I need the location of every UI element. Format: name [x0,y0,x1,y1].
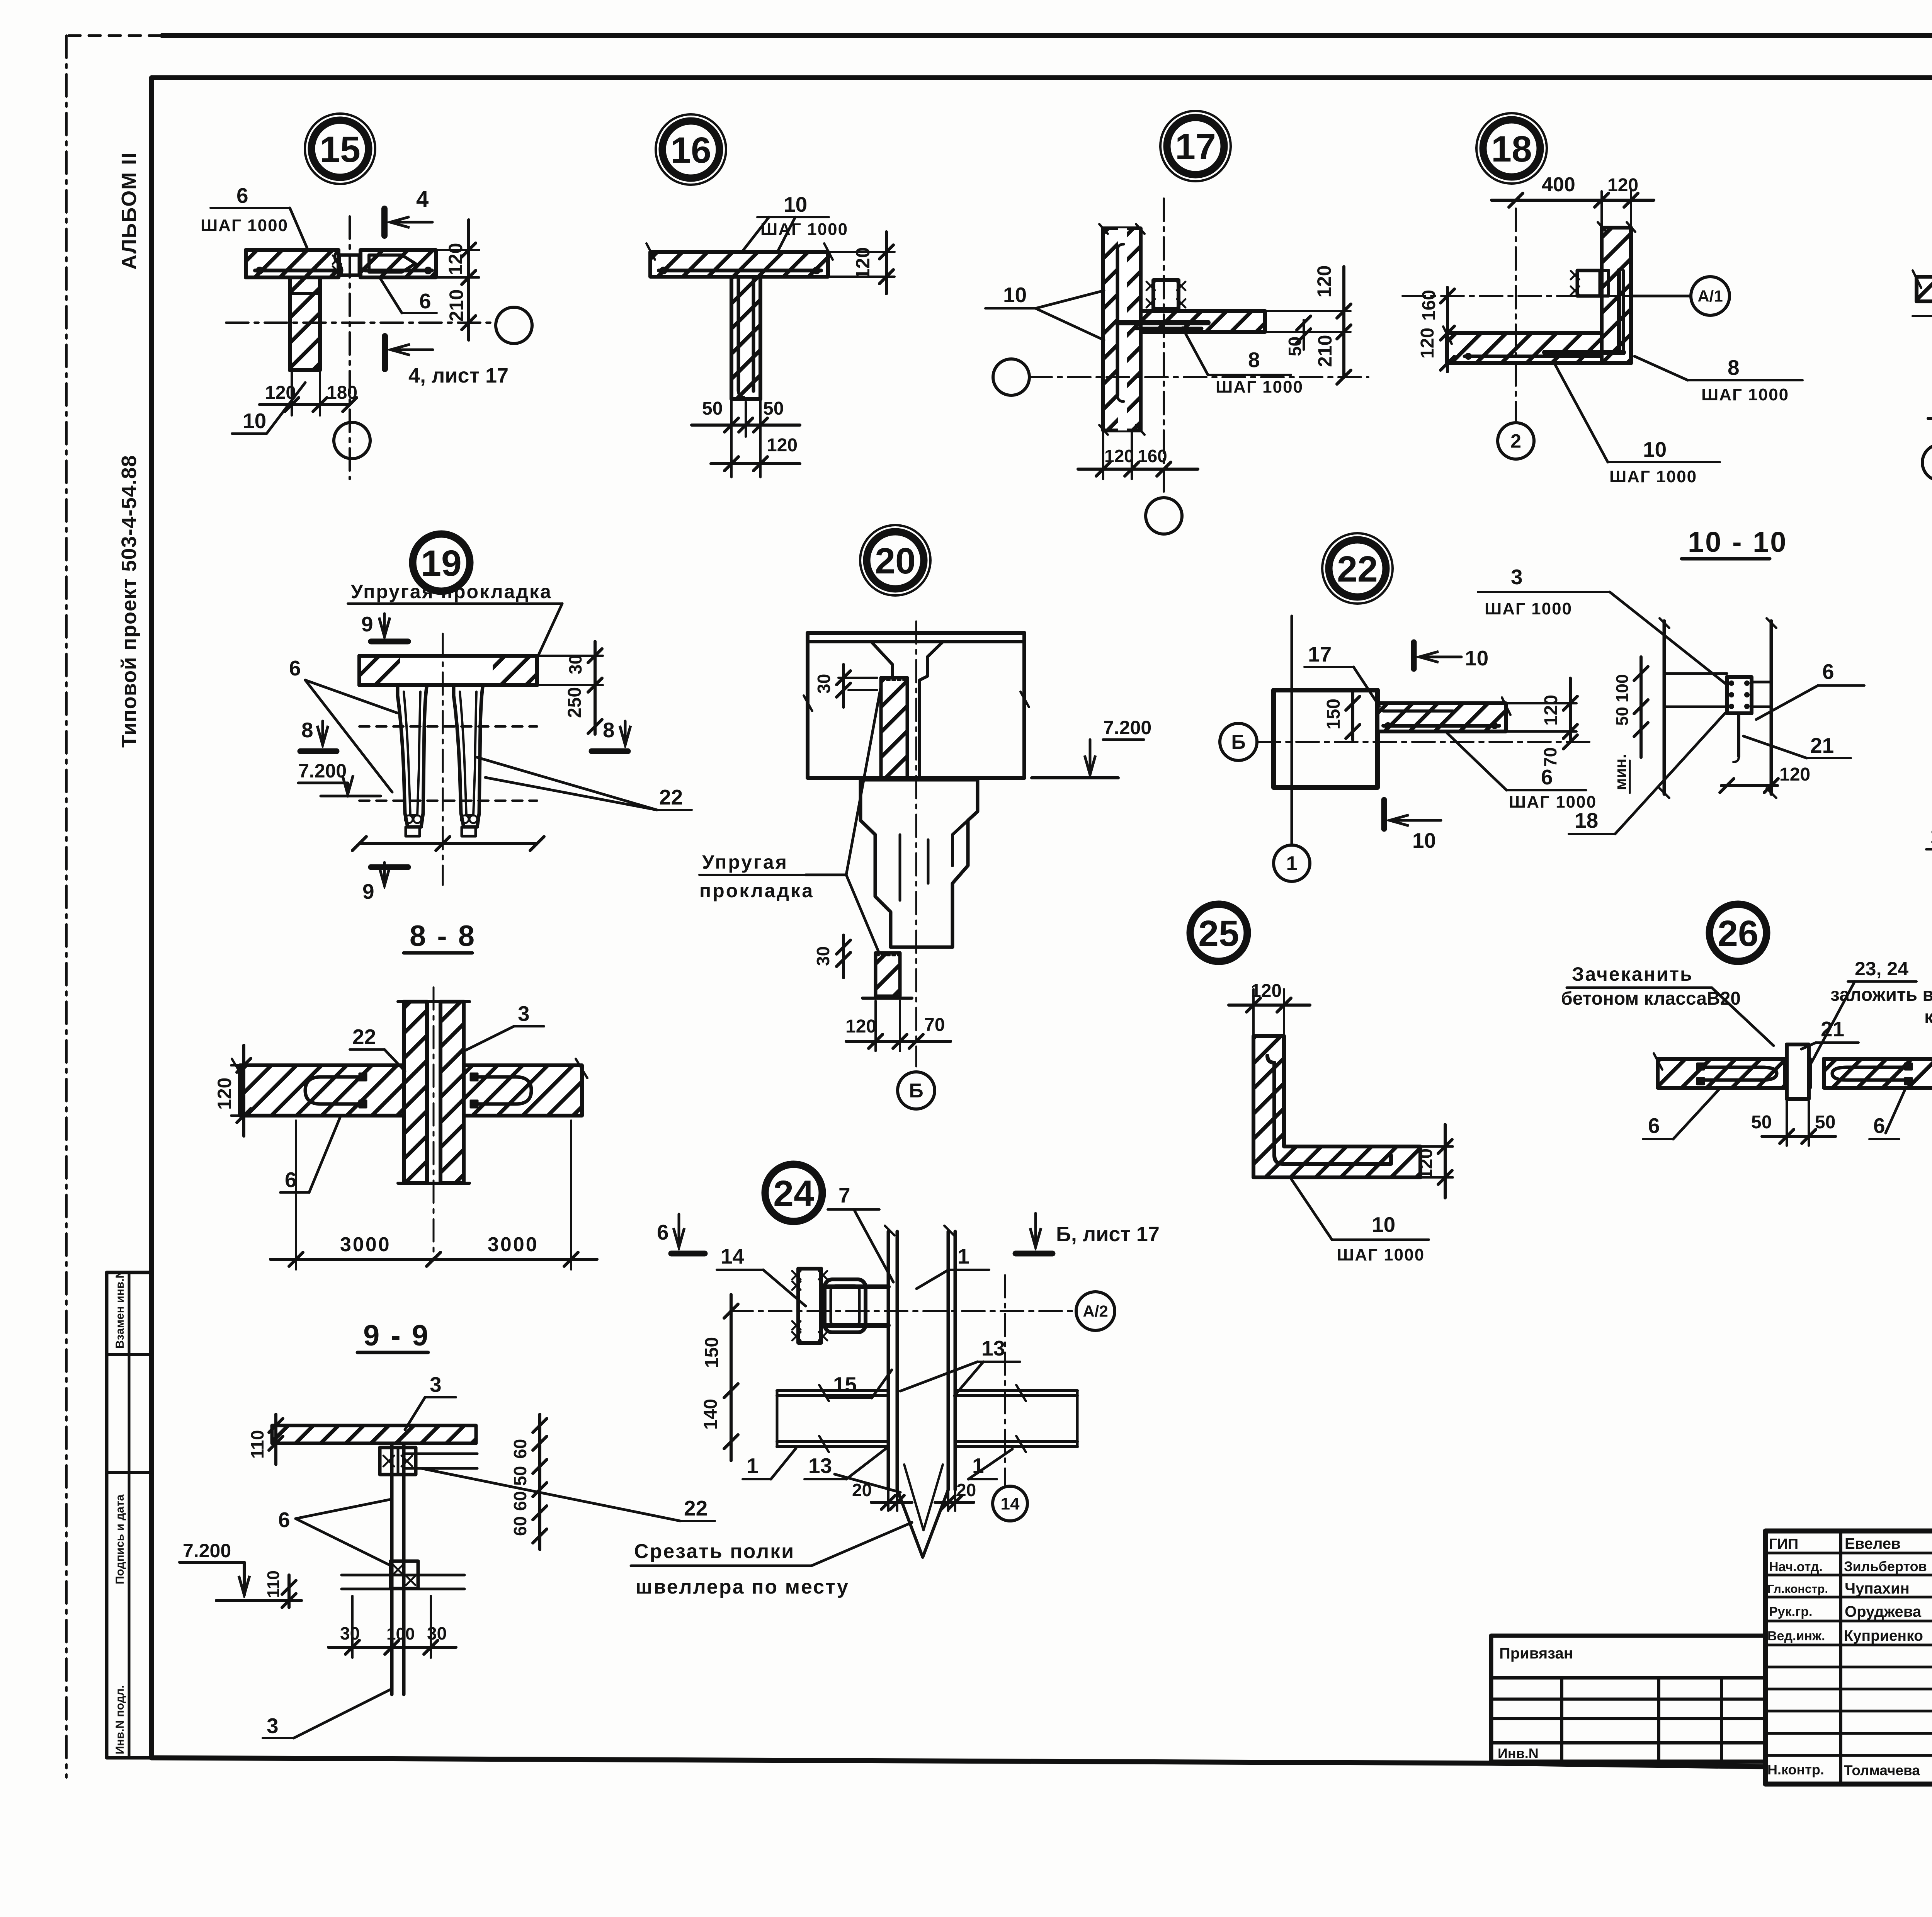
svg-text:3000: 3000 [488,1233,539,1256]
svg-text:8: 8 [301,718,313,742]
svg-text:Упругая прокладка: Упругая прокладка [351,581,552,602]
detail 18 wall axis [1515,209,1517,421]
svg-text:25: 25 [1198,913,1239,954]
detail 21 axis circle bottom [1922,444,1932,481]
svg-text:19: 19 [421,543,462,584]
svg-text:120: 120 [852,247,874,279]
section 8-8 wall axis [433,987,435,1260]
svg-text:160: 160 [1138,446,1167,466]
svg-text:ШАГ 1000: ШАГ 1000 [1216,378,1303,396]
svg-text:150: 150 [702,1337,722,1368]
svg-text:Евелев: Евелев [1845,1535,1901,1552]
dimension 50 50 d26 [1751,1101,1835,1146]
svg-text:60: 60 [510,1516,530,1536]
node 22 [1322,533,1393,604]
label 3 step 1000 f1010 [1478,565,1727,685]
svg-text:120: 120 [1541,695,1561,726]
svg-text:6: 6 [289,656,301,680]
detail 20 wall upper [881,678,907,778]
svg-text:180: 180 [327,383,357,403]
svg-text:6: 6 [236,184,248,208]
section mark 9 top [361,612,408,641]
svg-text:ШАГ 1000: ШАГ 1000 [1609,467,1697,486]
svg-text:швеллера по месту: швеллера по месту [636,1576,849,1598]
svg-text:1: 1 [957,1244,969,1268]
svg-text:А/2: А/2 [1083,1302,1108,1320]
section 10-10 wall edges [1660,618,1776,798]
svg-text:7.200: 7.200 [1103,717,1151,738]
detail 18 wall [1598,222,1635,363]
svg-text:60: 60 [510,1491,530,1511]
svg-text:120: 120 [1104,446,1134,466]
svg-text:30: 30 [565,655,585,674]
dimension 120 180 bottom [260,370,357,415]
section 9-9 upper rails [404,1454,477,1468]
svg-text:8: 8 [603,718,615,742]
svg-text:20: 20 [875,541,916,582]
node 25 [1190,904,1247,961]
svg-text:Толмачева: Толмачева [1844,1762,1920,1778]
svg-text:120: 120 [1416,1148,1436,1179]
label 6 f88 [280,1118,340,1192]
svg-text:заложить во время: заложить во время [1830,985,1932,1005]
label 3 f99 top [405,1373,456,1430]
detail 18 centerline [1403,295,1631,297]
detail 19 ceiling slab [359,656,537,685]
svg-text:120: 120 [1607,175,1638,196]
node 20 [860,525,930,595]
caulk note d26 [1561,963,1774,1046]
svg-text:10: 10 [1412,828,1436,852]
dimension 120 50 210 [1265,265,1351,377]
svg-text:10 - 10: 10 - 10 [1688,526,1787,558]
svg-text:ШАГ 1000: ШАГ 1000 [760,220,848,239]
detail 21 centerline [1913,315,1932,317]
svg-text:3: 3 [267,1714,279,1738]
svg-text:Б: Б [1231,731,1245,754]
detail 16 slab [646,243,833,277]
detail 26 slab left [1654,1053,1785,1088]
svg-text:мин.: мин. [1611,754,1629,790]
dimension 120 stem [711,435,800,471]
svg-text:Н.контр.: Н.контр. [1767,1762,1824,1778]
dimension 20 left d24 [852,1480,912,1511]
section 8-8 slab right [464,1059,587,1116]
left margin table vertical labels [114,1270,126,1754]
left margin vertical text 503-4-54.88 [117,455,141,748]
section 9-9 lower anchor [391,1561,418,1589]
detail 15 slab right [361,250,436,277]
dimension 400 120 bottom d21 [1928,376,1932,429]
svg-text:120: 120 [214,1078,235,1110]
section mark 10 bottom [1384,800,1441,852]
dimension 120 f1010 [1720,764,1810,793]
svg-text:9 - 9: 9 - 9 [363,1319,430,1352]
svg-text:250: 250 [565,687,585,718]
dimension 120 right [828,232,895,294]
detail 26 loop right [1832,1063,1912,1084]
svg-text:Привязан: Привязан [1499,1645,1573,1662]
detail 19 axis [442,634,444,885]
svg-text:20: 20 [852,1480,872,1500]
label 21 f1010 [1743,733,1851,758]
label 22 f99 [421,1468,715,1521]
svg-text:6: 6 [1648,1114,1660,1138]
svg-text:30: 30 [427,1623,447,1643]
svg-text:50: 50 [763,398,784,419]
label 10 step 1000 [742,192,848,252]
dimension 3000 3000 [270,1121,597,1269]
svg-text:120: 120 [767,435,798,456]
svg-text:50: 50 [1751,1112,1772,1133]
cut channels note d24 [631,1522,912,1598]
svg-text:50: 50 [1815,1112,1835,1133]
svg-text:8: 8 [1248,348,1260,372]
detail 17 anchor [1146,280,1185,309]
dimension 30 250 right [537,641,603,734]
section mark 6 left d24 [657,1214,705,1254]
detail 16 slab rebar [659,267,821,274]
svg-text:100: 100 [386,1624,415,1643]
section 10-10 rails [1664,674,1771,707]
label 10 left [985,283,1104,340]
svg-text:110: 110 [264,1570,283,1598]
dimension 120 70 d22 [1506,678,1577,767]
detail 17 axis circle bottom [1146,498,1182,534]
svg-text:Подпись и дата: Подпись и дата [114,1494,126,1584]
svg-text:13: 13 [981,1336,1005,1360]
outer top border [69,34,1932,37]
section mark 4 top [384,187,432,236]
svg-text:18: 18 [1575,808,1598,832]
label 22 f88 [350,1025,405,1071]
detail 17 wall axis [1163,199,1165,498]
svg-text:ШАГ 1000: ШАГ 1000 [1701,385,1789,404]
section 9-9 upper anchor [380,1448,416,1475]
section mark B list17 d24 [1015,1213,1160,1254]
detail 26 slab right [1824,1053,1932,1088]
detail 24 anchor tube [821,1279,888,1332]
svg-text:70: 70 [1540,747,1560,767]
node axis 14 d24 [993,1486,1027,1521]
svg-text:4, лист 17: 4, лист 17 [408,364,509,387]
svg-text:15: 15 [320,129,361,170]
svg-text:10: 10 [1372,1213,1395,1237]
svg-text:4: 4 [416,187,429,212]
label 7 d24 [828,1183,893,1282]
detail 22 column axis [1291,616,1293,844]
svg-text:14: 14 [721,1244,745,1268]
node 15 [305,114,375,184]
svg-text:17: 17 [1175,126,1216,167]
dimension 150 d22 [1323,690,1360,740]
node 24 [765,1164,822,1221]
frame bottom border [151,1758,1932,1784]
dimension 110 left f99 [247,1414,283,1465]
svg-text:ШАГ 1000: ШАГ 1000 [201,216,288,235]
detail 20 gasket dots upper [882,679,906,681]
svg-text:кладки: кладки [1924,1007,1932,1027]
label 22 d19 [477,757,692,810]
detail 15 slab rebar [255,267,432,274]
detail 17 slab rebar [1117,323,1208,328]
svg-text:13: 13 [808,1454,832,1478]
svg-text:Зачеканить: Зачеканить [1572,963,1693,985]
svg-text:Типовой проект 503-4-54.88: Типовой проект 503-4-54.88 [117,455,141,748]
elevation 7.200 f99 [180,1540,301,1607]
svg-text:1: 1 [1930,824,1932,848]
svg-text:10: 10 [784,192,807,216]
label 21 d26 [1801,1017,1859,1049]
dimension 120 70 d20 [845,1001,951,1051]
svg-text:3: 3 [1511,565,1523,589]
elastic gasket label [348,581,562,654]
node 17 [1160,111,1231,181]
detail 15 axis circle bottom [334,422,370,459]
left margin stamp table [107,1272,151,1758]
detail 24 right axis [1004,1275,1006,1485]
svg-text:7: 7 [838,1183,850,1207]
svg-text:прокладка: прокладка [699,880,814,902]
svg-text:22: 22 [684,1496,707,1520]
svg-text:бетоном классаВ20: бетоном классаВ20 [1561,988,1741,1009]
node A/1 axis [1631,277,1730,315]
signature name labels [1844,1535,1927,1778]
dimension 30 upper d20 [814,665,877,707]
node axis B d22 [1220,723,1257,760]
detail 16 stem [731,277,760,399]
svg-text:22: 22 [659,785,683,809]
detail 22 column [1274,690,1378,788]
detail 17 centerline [1029,370,1368,384]
svg-text:Б: Б [909,1080,923,1102]
node A/2 d24 [1076,1292,1115,1330]
section 8-8 loop right [471,1073,531,1107]
svg-text:110: 110 [247,1430,267,1459]
elastic gasket label d20 [699,686,881,958]
detail 24 anchor plate [792,1269,827,1343]
svg-text:120: 120 [1779,764,1810,785]
detail 24 wall lines [885,1226,955,1490]
svg-text:Чупахин: Чупахин [1845,1580,1910,1597]
svg-text:100: 100 [1613,674,1632,703]
svg-text:6: 6 [657,1220,669,1244]
svg-text:ГИП: ГИП [1769,1536,1798,1552]
title block outer box [1765,1531,1932,1784]
svg-text:6: 6 [419,289,431,313]
signature role labels [1767,1536,1828,1778]
dimensions 60 50 60 right f99 [510,1414,547,1550]
dimension 400 120 top [1492,173,1654,247]
svg-text:8: 8 [1728,356,1740,379]
svg-text:1: 1 [747,1454,759,1478]
label 1 bottom right d24 [968,1449,1012,1479]
svg-text:7.200: 7.200 [298,760,347,782]
frame left border [149,78,154,1758]
label 1 bottom left d24 [743,1448,796,1479]
svg-text:30: 30 [813,946,833,966]
detail 24 centerline [730,1310,1077,1312]
svg-text:8 - 8: 8 - 8 [410,920,476,953]
dimension 120 f88 [214,1045,251,1136]
svg-text:210: 210 [1314,335,1336,367]
svg-text:Б, лист 17: Б, лист 17 [1056,1223,1160,1246]
node 16 [656,114,726,185]
label 6 right [381,279,437,313]
svg-text:140: 140 [701,1399,721,1430]
detail 15 axis circle right [496,307,532,344]
detail 18 slab [1443,327,1602,363]
section mark 8 right [592,718,628,751]
svg-text:Срезать полки: Срезать полки [634,1540,795,1563]
svg-text:3: 3 [430,1373,442,1397]
svg-text:24: 24 [773,1173,814,1214]
elevation 7.200 d20 [1032,717,1151,778]
svg-text:26: 26 [1718,913,1759,954]
svg-text:150: 150 [1323,699,1344,730]
dimension 120 top d25 [1229,981,1310,1036]
section 8-8 loop left [305,1073,366,1107]
svg-text:16: 16 [670,130,711,171]
label 6 f1010 [1756,660,1864,720]
svg-text:17: 17 [1308,642,1332,666]
detail 19 width dim [352,837,544,850]
section title 8-8 [404,920,476,953]
detail 22 slab rebar [1383,711,1499,728]
label 18 f1010 [1569,713,1725,834]
svg-text:А/1: А/1 [1697,287,1723,305]
section 10-10 anchor plate [1727,677,1752,762]
section 9-9 wall lines [392,1443,404,1694]
label 3 f99 bottom [263,1689,392,1738]
svg-text:1: 1 [1286,852,1298,875]
inner frame top [151,75,1932,80]
detail 26 loop left [1697,1063,1777,1084]
title block signature columns [1841,1531,1932,1784]
svg-text:120: 120 [1417,328,1438,359]
detail 15 wall [270,277,338,370]
svg-text:50: 50 [1613,707,1632,726]
label 1 d24 [917,1244,989,1289]
elevation 7.200 d19 [298,760,381,796]
section mark 9 bottom [362,862,408,903]
detail 18 anchor [1571,270,1609,296]
dimension 20 right d24 [935,1480,976,1511]
section 8-8 slab left [232,1059,404,1116]
svg-text:9: 9 [361,612,373,636]
svg-text:15: 15 [833,1373,857,1397]
detail 20 rib profile [861,780,978,947]
label 6 step 1000 d22 [1447,733,1597,811]
svg-text:50: 50 [702,398,723,419]
svg-text:Рук.гр.: Рук.гр. [1769,1604,1812,1619]
svg-text:21: 21 [1810,733,1834,757]
section title 10-10 [1682,526,1787,559]
svg-text:10: 10 [1643,437,1667,461]
label 13 d24 [900,1336,1020,1396]
svg-text:21: 21 [1821,1017,1844,1041]
svg-text:6: 6 [1822,660,1834,684]
detail 20 axis [915,621,917,1067]
svg-text:22: 22 [1337,549,1378,590]
label 3 f88 [466,1002,544,1050]
section 8-8 wall [398,1002,469,1183]
detail 15 joint anchor [333,250,359,277]
detail 17 wall rebar hairpin [1117,244,1124,401]
label 6 with step 1000 [201,184,308,250]
label 8 step 1000 d18 [1634,356,1803,404]
detail 24 floor slabs [777,1385,1077,1452]
detail 17 wall [1099,224,1145,435]
svg-text:120: 120 [265,383,296,403]
svg-text:50: 50 [1285,337,1305,356]
dimension 30 100 30 f99 [328,1596,456,1658]
svg-text:Взамен инв.N: Взамен инв.N [114,1270,126,1349]
dimension 160 120 left [1417,287,1454,372]
detail 22 centerline [1258,741,1592,743]
svg-text:2: 2 [1510,430,1521,452]
dimension 120 right d25 [1416,1124,1453,1198]
detail 26 brick [1785,1044,1810,1099]
svg-text:160: 160 [1419,290,1439,321]
section mark 8 left [300,718,337,751]
svg-text:7.200: 7.200 [183,1540,231,1561]
svg-text:30: 30 [814,674,834,694]
left trim dash line [65,36,68,1778]
svg-text:10: 10 [1003,283,1027,307]
attachment table [1491,1636,1765,1762]
label 6 left d26 [1643,1089,1719,1139]
svg-text:6: 6 [1873,1114,1885,1138]
label 14 d24 [717,1244,806,1306]
detail 20 wall lower [862,953,912,998]
dimension 120 160 bottom [1078,430,1198,479]
detail 18 slab rebar [1464,354,1600,359]
svg-text:Упругая: Упругая [702,851,788,873]
svg-text:Инв.N подл.: Инв.N подл. [114,1685,126,1754]
dimension 30 lower d20 [813,935,850,978]
section title 9-9 [357,1319,430,1352]
detail 20 slab [804,633,1029,778]
svg-text:120: 120 [845,1016,876,1037]
svg-text:Инв.N: Инв.N [1498,1745,1539,1761]
svg-text:23, 24: 23, 24 [1855,958,1908,980]
svg-text:22: 22 [352,1025,376,1049]
svg-text:14: 14 [1001,1494,1020,1513]
label 10 step 1000 d18 [1553,361,1720,486]
svg-text:210: 210 [446,289,467,321]
label 10 [232,383,305,434]
svg-text:30: 30 [340,1623,360,1643]
detail 17 slab [1141,311,1265,332]
detail 15 wall axis [349,216,351,479]
svg-text:6: 6 [278,1508,290,1532]
section mark 4 bottom [385,336,509,387]
label 10 step 1000 d25 [1291,1179,1429,1264]
detail 21 slab [1913,270,1932,301]
dimension 100 50 min f1010 [1611,657,1648,793]
section 9-9 lower rails [342,1575,464,1589]
svg-text:10: 10 [243,409,266,433]
detail 17 axis circle left [993,359,1029,395]
section mark 10 top [1414,642,1488,670]
label 15 d24 [829,1370,892,1398]
detail 19 rib left [398,685,427,836]
svg-text:120: 120 [445,243,466,275]
svg-text:18: 18 [1491,129,1532,170]
svg-text:Оруджева: Оруджева [1845,1603,1922,1620]
label 1 bottom left d23 [1926,803,1932,849]
